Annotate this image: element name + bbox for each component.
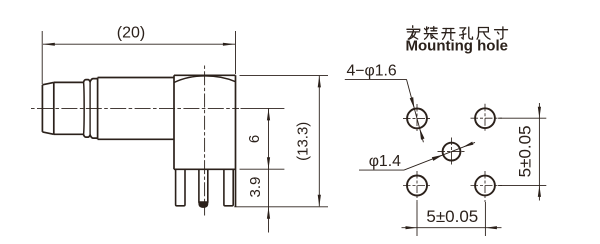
right leg <box>224 169 233 206</box>
bead bottom profile <box>83 134 97 138</box>
dim (13.3) arrow up <box>318 76 321 88</box>
leader 4-phi1.6 arrow top <box>410 97 415 109</box>
connector horizontal centerline <box>31 107 239 109</box>
dim 6 extension line at centerline <box>241 107 285 109</box>
dimension (20) extension line left <box>41 31 43 84</box>
mounting hole bottom-right centerlines <box>471 185 503 187</box>
top extension line at body top <box>240 74 329 76</box>
dimension (20) arrow left <box>43 43 55 46</box>
body bottom edge <box>98 138 174 140</box>
dim 6/3.9 extension line at block bottom <box>240 168 285 170</box>
block left edge <box>173 75 175 169</box>
mounting hole bottom-left circle <box>407 176 427 196</box>
dim 6/3.9 dimension line <box>268 109 270 233</box>
svg-text:5±0.05: 5±0.05 <box>426 207 478 226</box>
dim 5pm0.05 bottom arrow left <box>406 226 418 229</box>
connector nose top edge <box>54 81 84 83</box>
leader phi1.4 underline <box>359 169 404 171</box>
leader 4-phi1.6 underline <box>345 78 407 80</box>
title chinese char 安 <box>407 26 420 39</box>
mounting hole bottom-left centerlines <box>403 185 432 187</box>
dim 5pm0.05 bottom extension right <box>484 202 486 236</box>
mounting hole top-right centerlines <box>471 117 503 119</box>
svg-text:3.9: 3.9 <box>247 177 264 198</box>
dim 5pm0.05 right extension bottom <box>498 184 546 186</box>
center pin rounded tip <box>198 202 208 208</box>
dim 5pm0.05 bottom extension left <box>416 202 418 236</box>
dimension (20) arrow right <box>223 43 235 46</box>
dim 3.9 arrow up outside <box>267 207 270 219</box>
title chinese char 寸 <box>495 27 508 39</box>
dim (13.3) arrow down <box>318 195 321 207</box>
title chinese char 装 <box>424 27 437 40</box>
bottom extension line at leg bottoms <box>234 206 328 208</box>
body front vertical <box>97 78 99 140</box>
dim 5pm0.05 right dimension line <box>538 103 540 201</box>
dim 5pm0.05 right extension top <box>498 117 546 119</box>
title chinese char 尺 <box>477 28 490 40</box>
dimension (20) extension line right <box>235 31 237 74</box>
leader phi1.4 arrow right <box>462 142 473 148</box>
title chinese char 孔 <box>460 27 473 39</box>
connector nose bottom edge <box>54 133 84 135</box>
svg-text:5±0.05: 5±0.05 <box>516 125 535 177</box>
mounting hole bottom-right circle <box>475 176 495 196</box>
dim 6 arrow down / 3.9 arrow down <box>267 157 270 169</box>
leader phi1.4 line <box>404 142 475 170</box>
block top arc <box>174 76 236 83</box>
svg-text:φ1.4: φ1.4 <box>369 153 401 170</box>
leader 4-phi1.6 line <box>407 79 424 142</box>
block top edge <box>174 74 236 76</box>
mounting hole center centerlines <box>438 151 467 153</box>
connector nose top chamfer <box>42 82 53 84</box>
svg-text:(20): (20) <box>117 25 145 42</box>
svg-text:Mounting hole: Mounting hole <box>406 37 508 54</box>
mounting hole top-right circle <box>475 108 495 128</box>
svg-text:4−φ1.6: 4−φ1.6 <box>347 62 397 79</box>
connector nose bottom chamfer <box>42 132 53 134</box>
left leg <box>176 169 185 206</box>
connector vertical centerline <box>204 66 206 216</box>
bead groove vertical <box>89 82 91 135</box>
dim 6 arrow up <box>267 109 270 121</box>
bead front vertical <box>82 82 85 136</box>
svg-text:(13.3): (13.3) <box>295 122 312 161</box>
dim 5pm0.05 right arrow bottom <box>538 185 541 197</box>
block bottom edge <box>174 168 236 170</box>
dim 5pm0.05 bottom arrow right <box>485 226 497 229</box>
center pin <box>199 169 208 202</box>
connector nose front face <box>41 85 43 132</box>
bead top profile <box>83 79 97 83</box>
mounting hole center circle <box>443 143 461 161</box>
title chinese char 开 <box>442 29 455 40</box>
mounting hole top-left circle <box>407 109 427 129</box>
dim 5pm0.05 bottom dimension line <box>402 227 502 229</box>
mounting hole top-left centerlines <box>403 117 432 119</box>
leader 4-phi1.6 arrow bottom <box>420 128 425 140</box>
svg-text:6: 6 <box>246 135 263 143</box>
body top edge <box>98 77 174 79</box>
dim 5pm0.05 right arrow top <box>538 107 541 119</box>
leader phi1.4 arrow left <box>432 155 443 161</box>
dimension (20) dimension line <box>43 43 235 45</box>
dim (13.3) dimension line <box>318 76 320 206</box>
block right edge <box>235 75 237 207</box>
connector nose shoulder vertical <box>53 82 55 134</box>
